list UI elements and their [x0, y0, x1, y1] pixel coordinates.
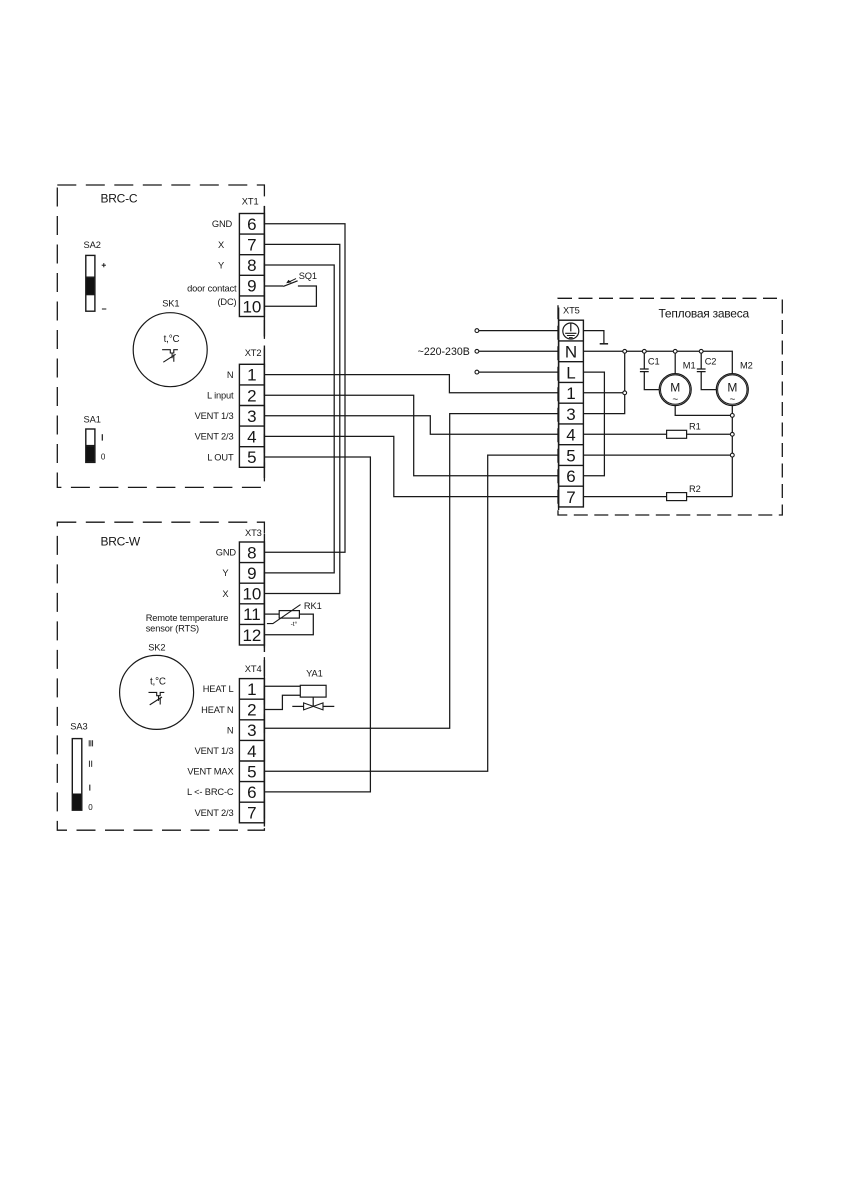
svg-text:N: N	[227, 725, 234, 735]
svg-text:3: 3	[247, 407, 256, 426]
svg-text:5: 5	[247, 448, 256, 467]
switch SA2 body	[86, 255, 95, 311]
terminal block XT1	[239, 214, 264, 317]
wire XT5-7 to R2	[583, 496, 666, 498]
svg-text:10: 10	[242, 297, 261, 316]
svg-text:(DC): (DC)	[217, 297, 236, 307]
svg-text:GND: GND	[212, 219, 233, 229]
switch SQ1 blade	[283, 281, 297, 287]
wire XT4-5 to XT5-5 (VENT MAX)	[264, 455, 558, 771]
svg-text:3: 3	[247, 721, 256, 740]
svg-text:8: 8	[247, 256, 256, 275]
svg-text:9: 9	[247, 277, 256, 296]
wire supply N to XT5-N	[479, 350, 559, 352]
SQ1 leader arrow	[288, 279, 296, 283]
svg-text:GND: GND	[216, 548, 237, 558]
svg-text:SK1: SK1	[162, 298, 179, 308]
capacitor C1 leads	[644, 351, 659, 389]
supply terminal N	[475, 349, 479, 353]
capacitor C2 plates	[697, 369, 706, 372]
svg-text:6: 6	[566, 467, 575, 486]
svg-text:10: 10	[242, 585, 261, 604]
wire R2 to right column	[687, 496, 733, 498]
motor M1	[659, 374, 691, 406]
YA1 coil	[300, 685, 326, 697]
svg-text:t,°C: t,°C	[150, 677, 166, 688]
svg-text:~: ~	[672, 394, 678, 405]
SA3 mark II	[89, 761, 91, 767]
svg-text:C2: C2	[705, 356, 717, 366]
junction node A / XT5-1	[623, 391, 627, 395]
svg-text:4: 4	[247, 742, 256, 761]
svg-text:M: M	[670, 381, 680, 395]
capacitor C1 plates	[640, 369, 649, 372]
svg-text:Remote temperature: Remote temperature	[146, 613, 229, 623]
svg-text:L input: L input	[207, 391, 234, 401]
SA3 mark I	[89, 785, 91, 791]
RK1 t° stroke	[267, 605, 301, 624]
svg-text:-t°: -t°	[291, 620, 298, 628]
svg-text:XT5: XT5	[563, 306, 580, 316]
SA1 mark I	[101, 434, 103, 440]
thermostat SK1 body circle	[133, 313, 207, 387]
svg-text:L: L	[566, 363, 575, 382]
earth (ground) symbol	[600, 343, 608, 345]
YA1 valve right pipe stub	[323, 705, 334, 707]
svg-text:HEAT N: HEAT N	[201, 705, 233, 715]
svg-text:M: M	[727, 381, 737, 395]
thermostat SK2 body circle	[120, 655, 194, 729]
svg-text:X: X	[218, 240, 224, 250]
svg-text:7: 7	[566, 488, 575, 507]
wire XT2-2 to XT5-6 (L input)	[264, 395, 558, 476]
svg-text:VENT 2/3: VENT 2/3	[195, 432, 234, 442]
junction M1-M2 bottom	[730, 414, 734, 418]
svg-text:C1: C1	[648, 356, 660, 366]
svg-text:1: 1	[566, 384, 575, 403]
svg-text:Тепловая завеса: Тепловая завеса	[659, 307, 750, 321]
svg-text:VENT 1/3: VENT 1/3	[195, 411, 234, 421]
svg-text:L <- BRC-C: L <- BRC-C	[187, 787, 234, 797]
wire XT1-8 to XT3-9 (Y)	[264, 265, 334, 573]
terminal block XT2	[239, 364, 264, 467]
SK2 thermal contact symbol	[149, 692, 165, 705]
wire XT5-4 to R1	[583, 433, 666, 435]
SA3 mark III	[89, 740, 92, 746]
wire XT1-9 to switch SQ1	[264, 285, 283, 287]
wire SQ1 to XT1-10	[264, 286, 316, 306]
svg-text:t,°C: t,°C	[164, 334, 180, 345]
svg-text:door contact: door contact	[187, 283, 237, 293]
XT5 pin PE (protective earth symbol)	[563, 323, 579, 339]
wire RK1 to XT3-12	[264, 614, 313, 635]
svg-text:5: 5	[247, 762, 256, 781]
svg-text:1: 1	[247, 366, 256, 385]
svg-text:SK2: SK2	[148, 642, 165, 652]
svg-text:3: 3	[566, 405, 575, 424]
SK1 thermal contact symbol	[162, 350, 178, 363]
wire XT5-5 to right column	[583, 454, 732, 456]
svg-text:N: N	[227, 370, 234, 380]
svg-text:Y: Y	[218, 261, 224, 271]
solid spine on left edge at XT5	[558, 308, 560, 511]
svg-text:XT1: XT1	[242, 197, 259, 207]
svg-text:XT3: XT3	[245, 528, 262, 538]
svg-text:7: 7	[247, 236, 256, 255]
BRC-C controller dashed enclosure	[57, 185, 264, 487]
junction N bus / C1	[642, 349, 646, 353]
capacitor C2 leads	[701, 351, 716, 389]
junction column / XT5-5	[730, 453, 734, 457]
wire XT2-5 to XT4-6 (L OUT to L <- BRC-C)	[264, 457, 370, 792]
svg-text:4: 4	[247, 428, 256, 447]
wire XT4-3 to XT5-3 (N)	[264, 414, 558, 729]
wire M1 bottom to right column	[675, 406, 732, 416]
SA2 minus mark	[102, 308, 106, 310]
svg-text:M1: M1	[683, 361, 696, 371]
wire XT1-6 to XT3-8 (GND)	[264, 224, 345, 553]
wire supply L to XT5-L	[479, 371, 559, 373]
wire XT5-L to XT5-6 jumper	[583, 372, 604, 476]
YA1 valve left pipe stub	[292, 705, 303, 707]
YA1 coil to valve stem	[312, 697, 314, 706]
terminal block XT5	[559, 320, 584, 507]
wire R1 to right column	[687, 433, 733, 435]
switch SA1 body	[86, 429, 95, 462]
svg-text:L OUT: L OUT	[207, 452, 234, 462]
svg-text:~: ~	[729, 394, 735, 405]
solid spine on right edge of BRC-C at terminal strips	[263, 206, 265, 337]
wire XT2-3 to XT5-4 (VENT 1/3)	[264, 416, 558, 435]
junction N bus / node A	[623, 349, 627, 353]
svg-text:N: N	[565, 343, 577, 362]
Тепловая завеса (heat curtain) dashed enclosure	[558, 298, 782, 515]
SA2 knob position (filled)	[86, 278, 94, 294]
wire XT1-7 to XT3-10 (X)	[264, 244, 339, 593]
solid spine on right edge of BRC-W at terminal strips	[263, 534, 265, 652]
svg-text:SA1: SA1	[84, 415, 101, 425]
svg-text:HEAT L: HEAT L	[203, 684, 234, 694]
wire XT3-11 to RK1	[264, 613, 279, 615]
svg-text:XT2: XT2	[245, 348, 262, 358]
wire M2 bottom / right column	[731, 406, 733, 497]
svg-text:SA3: SA3	[70, 722, 87, 732]
motor M2	[716, 374, 748, 406]
svg-text:7: 7	[247, 804, 256, 823]
svg-text:M2: M2	[740, 361, 753, 371]
junction N bus / M1	[673, 349, 677, 353]
junction N bus / C2	[699, 349, 703, 353]
svg-text:8: 8	[247, 543, 256, 562]
resistor R1	[667, 430, 687, 438]
svg-text:SA2: SA2	[84, 240, 101, 250]
svg-text:X: X	[222, 589, 228, 599]
wire XT2-4 to XT5-7 (VENT 2/3)	[264, 436, 558, 496]
SA1 knob position (filled)	[86, 446, 94, 462]
svg-text:12: 12	[242, 626, 261, 645]
svg-text:9: 9	[247, 564, 256, 583]
svg-text:2: 2	[247, 386, 256, 405]
svg-text:sensor (RTS): sensor (RTS)	[146, 624, 199, 634]
svg-text:0: 0	[101, 452, 106, 461]
junction column / R1	[730, 432, 734, 436]
wire XT4-1 to YA1 coil	[264, 685, 300, 687]
wire XT5-PE to earth	[583, 331, 604, 344]
supply terminal L	[475, 370, 479, 374]
svg-text:XT4: XT4	[245, 664, 262, 674]
wire supply PE to XT5-PE	[479, 330, 559, 332]
wire node A vertical (N to XT5-3)	[583, 351, 624, 413]
terminal block XT3	[239, 542, 264, 645]
SA3 knob position (filled)	[73, 794, 82, 810]
svg-text:BRC-W: BRC-W	[101, 535, 141, 549]
switch SA3 body	[72, 739, 82, 811]
BRC-W controller dashed enclosure	[57, 522, 264, 830]
supply terminal PE	[475, 329, 479, 333]
svg-text:VENT 1/3: VENT 1/3	[195, 746, 234, 756]
terminal block XT4	[239, 679, 264, 823]
svg-text:~220-230В: ~220-230В	[418, 346, 470, 358]
svg-text:1: 1	[247, 680, 256, 699]
svg-text:6: 6	[247, 783, 256, 802]
svg-text:VENT 2/3: VENT 2/3	[195, 808, 234, 818]
svg-text:4: 4	[566, 426, 575, 445]
svg-text:6: 6	[247, 215, 256, 234]
wire N bus XT5-N to M2	[583, 351, 732, 373]
svg-text:11: 11	[243, 605, 261, 624]
resistor R2	[667, 493, 687, 501]
svg-text:RK1: RK1	[304, 601, 322, 611]
svg-text:BRC-C: BRC-C	[101, 191, 138, 205]
svg-text:VENT MAX: VENT MAX	[187, 767, 233, 777]
svg-text:R1: R1	[689, 421, 701, 431]
wire XT4-2 to YA1 coil	[264, 695, 300, 709]
svg-text:2: 2	[247, 701, 256, 720]
wire N bus to M1 (junction above)	[674, 351, 676, 373]
wire XT2-1 to XT5-1 (N)	[264, 375, 558, 393]
svg-text:SQ1: SQ1	[299, 271, 317, 281]
svg-text:Y: Y	[222, 568, 228, 578]
YA1 valve body	[304, 703, 323, 710]
svg-text:5: 5	[566, 446, 575, 465]
svg-text:R2: R2	[689, 484, 701, 494]
wire XT5-1 to node A	[583, 392, 624, 394]
svg-text:0: 0	[88, 803, 93, 812]
thermistor RK1 body	[279, 611, 299, 619]
SA2 plus mark	[102, 264, 106, 266]
svg-text:YA1: YA1	[306, 668, 323, 678]
